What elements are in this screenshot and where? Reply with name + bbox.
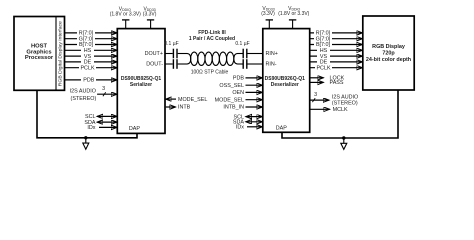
svg-text:RGB Display: RGB Display [372, 44, 405, 50]
wire PDB into U2 [233, 76, 262, 82]
wire HS U2 to display [310, 47, 363, 54]
svg-text:Processor: Processor [25, 55, 54, 61]
svg-text:Deserializer: Deserializer [271, 82, 299, 88]
wire PCLK HOST to U1 [65, 65, 117, 72]
wire MODE_SEL into U1 (right side) [166, 97, 208, 103]
svg-text:(STEREO): (STEREO) [71, 96, 97, 102]
wire SDA U1 (bidirectional) [84, 120, 117, 126]
wire VS HOST to U1 [65, 53, 117, 60]
svg-text:PDB: PDB [233, 76, 244, 82]
svg-text:INTB: INTB [178, 105, 191, 111]
wire SCL U1 (bidirectional) [85, 114, 117, 120]
svg-text:0.1 µF: 0.1 µF [235, 41, 249, 47]
capacitor C2 (DOUT-) [173, 59, 177, 69]
wire C4 to RIN- [248, 63, 263, 65]
wire LOCK out of U2 [310, 76, 345, 82]
wire DOUT- to C2 [165, 63, 173, 65]
svg-text:3: 3 [314, 92, 317, 98]
svg-text:OSS_SEL: OSS_SEL [219, 83, 244, 89]
wire DE HOST to U1 [65, 59, 117, 66]
svg-text:FPD-Link III: FPD-Link III [198, 30, 226, 36]
svg-text:Serializer: Serializer [130, 82, 152, 88]
capacitor C1 0.1uF (DOUT+) [164, 41, 178, 58]
block RGB Display [363, 16, 414, 90]
node junction dot left ground [84, 136, 87, 139]
svg-text:PCLK: PCLK [316, 65, 330, 71]
wire C3 to RIN+ [248, 53, 263, 55]
svg-text:3: 3 [102, 86, 105, 92]
svg-text:DOUT-: DOUT- [146, 62, 163, 68]
wire VS U2 to display [310, 53, 363, 60]
wire ground bus left (HOST to U1 DAP) [37, 90, 137, 138]
svg-text:(3.3V): (3.3V) [143, 12, 157, 18]
svg-text:INTB_IN: INTB_IN [223, 105, 244, 111]
svg-text:IDx: IDx [236, 125, 244, 131]
wire IDx into U1 [87, 125, 117, 131]
cable W1 100 ohm STP twisted pair [178, 30, 243, 76]
deserializer U2 DS90UB926Q-Q1 [263, 29, 310, 133]
svg-text:MCLK: MCLK [333, 107, 348, 113]
wire SCL U2 (bidirectional) [234, 114, 263, 120]
svg-text:(3.3V): (3.3V) [261, 11, 275, 17]
ground GND1 [83, 138, 89, 149]
svg-text:PCLK: PCLK [80, 65, 94, 71]
power VDDIO supply stub (U2) [278, 6, 309, 29]
svg-text:MODE_SEL: MODE_SEL [215, 97, 244, 103]
svg-text:(1.8V or 3.3V): (1.8V or 3.3V) [278, 11, 309, 17]
svg-text:RIN-: RIN- [266, 62, 277, 68]
svg-text:DOUT+: DOUT+ [145, 51, 163, 57]
wire MCLK out of U2 [310, 107, 348, 113]
wire OEN into U2 [232, 90, 262, 96]
svg-text:RIN+: RIN+ [266, 51, 278, 57]
wire OSS_SEL into U2 [219, 83, 262, 89]
wire PASS out of U2 [310, 80, 344, 86]
capacitor C4 (RIN-) [243, 59, 247, 69]
power VDD33 supply stub (U1) [143, 6, 157, 28]
svg-text:DAP: DAP [129, 126, 140, 132]
wire G[7:0] HOST to U1 [65, 36, 117, 43]
wire DE U2 to display [310, 59, 363, 66]
capacitor C3 0.1uF (RIN+) [235, 41, 249, 58]
wire PDB HOST to U1 [65, 77, 117, 84]
node junction dot right ground [342, 136, 345, 139]
ground GND2 [341, 138, 347, 149]
wire B[7:0] U2 to display [310, 42, 363, 49]
wire PCLK U2 to display [310, 65, 363, 72]
wire IDx into U2 [236, 125, 262, 131]
wire B[7:0] HOST to U1 [65, 42, 117, 49]
svg-text:PASS: PASS [330, 80, 344, 86]
wire INTB_IN into U2 [223, 105, 262, 111]
wire R[7:0] HOST to U1 [65, 30, 117, 37]
power VDD33 supply stub (U2) [261, 6, 275, 29]
svg-text:1 Pair / AC Coupled: 1 Pair / AC Coupled [189, 36, 235, 42]
svg-text:(STEREO): (STEREO) [332, 100, 358, 106]
wire MODE_SEL into U2 [215, 97, 263, 103]
svg-text:OEN: OEN [232, 90, 244, 96]
svg-text:RGB Digital Display Interface: RGB Digital Display Interface [58, 21, 64, 86]
wire R[7:0] U2 to display [310, 30, 363, 37]
wire I2S AUDIO bus into U1 with slash and 3 [70, 86, 117, 102]
serializer U1 DS90UB925Q-Q1 [117, 29, 165, 134]
svg-text:IDx: IDx [87, 125, 95, 131]
svg-text:0.1 µF: 0.1 µF [164, 41, 178, 47]
svg-text:MODE_SEL: MODE_SEL [178, 97, 207, 103]
svg-text:PDB: PDB [83, 78, 94, 84]
wire I2S AUDIO out of U2 with slash and 3 [310, 92, 359, 107]
power VDDIO supply stub (U1) [110, 6, 141, 28]
svg-text:100Ω STP Cable: 100Ω STP Cable [191, 69, 229, 75]
wire G[7:0] U2 to display [310, 36, 363, 43]
svg-text:24-bit color depth: 24-bit color depth [366, 57, 411, 63]
wire HS HOST to U1 [65, 47, 117, 54]
svg-text:I2S AUDIO: I2S AUDIO [70, 89, 96, 95]
wire DOUT+ to C1 [165, 53, 173, 55]
svg-text:720p: 720p [382, 51, 395, 57]
block HOST Graphics Processor [14, 17, 65, 91]
wire SDA U2 (bidirectional) [233, 120, 262, 126]
wire INTB out of U1 [166, 105, 191, 111]
svg-text:DAP: DAP [276, 125, 287, 131]
svg-text:(1.8V or 3.3V): (1.8V or 3.3V) [110, 12, 141, 18]
wire ground bus right (U2 DAP to display) [282, 90, 398, 138]
